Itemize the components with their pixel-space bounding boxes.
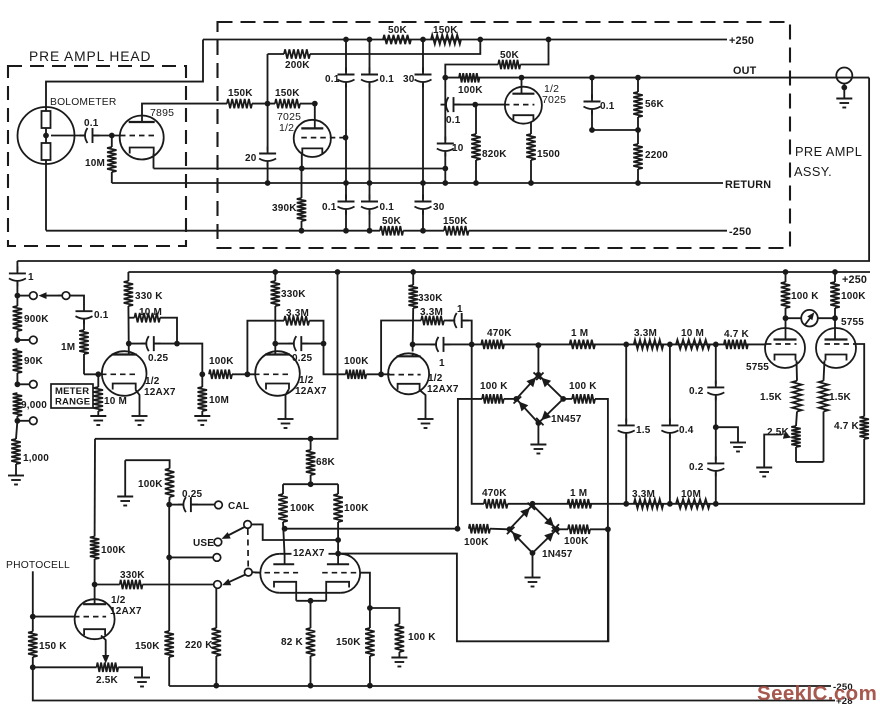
wire 5755 right grid xyxy=(856,344,865,417)
svg-text:50K: 50K xyxy=(382,216,402,227)
svg-text:100K: 100K xyxy=(564,536,589,547)
svg-text:5755: 5755 xyxy=(841,317,864,328)
wire cathode join xyxy=(796,461,824,463)
wire -250 rail bottom xyxy=(169,682,853,693)
capacitor 0.1 (7025b coupling) xyxy=(441,97,461,126)
resistor 3.3M + capacitor 1 (stage3 feedback) xyxy=(381,304,472,374)
resistor 100K (bridge1 right) xyxy=(563,381,611,641)
svg-text:1N457: 1N457 xyxy=(551,414,582,425)
svg-text:900K: 900K xyxy=(24,314,49,325)
tube V3 7025 second half xyxy=(504,75,566,124)
wire filter line C lower xyxy=(420,211,426,234)
wire photocell cathode to wiper xyxy=(101,636,109,664)
svg-text:1 M: 1 M xyxy=(570,488,587,499)
svg-text:150K: 150K xyxy=(443,216,468,227)
svg-text:0.25: 0.25 xyxy=(182,489,203,500)
resistor 82K (twin cathode) xyxy=(281,601,315,686)
resistor 1M (upper) xyxy=(570,328,630,349)
resistor 150K (second) xyxy=(275,88,300,108)
svg-text:10M: 10M xyxy=(85,158,105,169)
svg-text:10 M: 10 M xyxy=(104,396,127,407)
resistor 100K (stage2-3 coupling) xyxy=(344,356,390,379)
svg-text:1/2: 1/2 xyxy=(279,122,294,134)
wire B+ rail lower xyxy=(128,269,870,275)
node 68K top xyxy=(308,436,314,442)
svg-text:METER: METER xyxy=(55,386,89,397)
switch blade upper xyxy=(222,521,252,539)
tube V10 5755 right xyxy=(816,317,864,368)
svg-text:150K: 150K xyxy=(135,641,160,652)
capacitor 0.25 (stage2) xyxy=(272,336,326,364)
resistor 2200 xyxy=(633,130,668,186)
resistor 150K (cal leg) xyxy=(135,631,174,686)
wire 7895 plate to 150K row xyxy=(142,104,227,116)
wire right-plate to switch xyxy=(252,524,338,540)
svg-text:330K: 330K xyxy=(418,293,443,304)
capacitor 0.1 (output) xyxy=(584,75,615,133)
node 7025a grid-line junction xyxy=(343,135,349,141)
wire twin right grid xyxy=(361,573,373,611)
svg-text:0.1: 0.1 xyxy=(446,115,461,126)
wire photocell drop xyxy=(30,571,36,619)
capacitor 20 (cathode bypass) xyxy=(245,104,276,183)
wire bolometer bottom to -250 rail xyxy=(45,160,47,231)
wire bridge1 ground stem xyxy=(537,423,539,445)
ground (stage2 cathode) xyxy=(278,419,294,428)
svg-text:330K: 330K xyxy=(120,570,145,581)
capacitor 1 (stage3 plate coupling) xyxy=(410,337,475,369)
capacitor 0.1 (meter cal input) xyxy=(76,304,109,324)
svg-text:-250: -250 xyxy=(729,226,751,238)
resistor 150K (+250 rail) xyxy=(431,25,551,44)
capacitor 0.1 (A bottom) xyxy=(322,195,355,215)
capacitor 1.5 xyxy=(618,344,651,504)
resistor 1M (lower) xyxy=(568,488,592,509)
resistor 330K (stage3 plate) xyxy=(409,272,444,352)
svg-text:20: 20 xyxy=(245,153,257,164)
bolometer B1 xyxy=(18,97,117,164)
svg-text:ASSY.: ASSY. xyxy=(794,164,832,179)
ground (2.5K) xyxy=(134,678,150,687)
svg-text:820K: 820K xyxy=(482,149,507,160)
tube V5 stage2 1/2 12AX7 xyxy=(254,351,327,397)
resistor 100K (bridge2 right) xyxy=(557,525,608,547)
wire cap to node xyxy=(94,135,121,137)
wire RETURN row xyxy=(112,179,771,191)
svg-text:0.1: 0.1 xyxy=(84,118,99,129)
svg-text:0.4: 0.4 xyxy=(679,425,694,436)
svg-text:100 K: 100 K xyxy=(408,632,436,643)
wire filter line B lower xyxy=(367,211,373,234)
node twin left plate xyxy=(282,526,288,532)
enclosure PRE AMPL ASSY dashed box xyxy=(218,22,863,248)
wire stage3 cathode xyxy=(419,390,426,420)
resistor 100K (7025b grid) xyxy=(458,73,483,96)
svg-text:150K: 150K xyxy=(275,88,300,99)
svg-text:1/2: 1/2 xyxy=(299,375,314,386)
resistor 820K xyxy=(471,105,507,186)
node 0.2 mid xyxy=(713,424,738,442)
label METER RANGE xyxy=(51,384,93,408)
capacitor 30 (C bottom) xyxy=(415,195,445,215)
resistor 1M xyxy=(61,320,89,375)
svg-text:3.3M: 3.3M xyxy=(286,308,309,319)
diode bridge 1N457 (upper) xyxy=(513,372,581,426)
ground (bridge1) xyxy=(530,445,546,454)
svg-text:1: 1 xyxy=(457,304,463,315)
svg-text:50K: 50K xyxy=(500,50,520,61)
svg-text:470K: 470K xyxy=(482,488,507,499)
svg-text:12AX7: 12AX7 xyxy=(144,387,176,398)
ground (divider) xyxy=(8,476,24,485)
wire stage3 out drop xyxy=(472,344,484,503)
svg-text:0.2: 0.2 xyxy=(689,386,704,397)
wire filter line B upper xyxy=(367,37,373,72)
tap 90K/9000 xyxy=(15,381,38,389)
switch linkage dashed xyxy=(247,529,249,568)
svg-text:1/2: 1/2 xyxy=(111,595,126,606)
svg-text:150K: 150K xyxy=(433,25,458,36)
svg-text:56K: 56K xyxy=(645,99,665,110)
svg-text:10M: 10M xyxy=(681,489,701,500)
ground (cal divider) xyxy=(117,460,133,505)
ground (stage3 cathode) xyxy=(418,419,434,428)
wire blade lower to grid xyxy=(252,571,260,574)
svg-text:100K: 100K xyxy=(344,503,369,514)
wire filter line A lower xyxy=(343,211,349,234)
resistor 50K (+250 rail) xyxy=(383,25,411,44)
meter M1 xyxy=(783,310,838,327)
svg-text:1.5K: 1.5K xyxy=(760,392,783,403)
svg-text:0.1: 0.1 xyxy=(380,74,395,85)
svg-text:12AX7: 12AX7 xyxy=(427,384,459,395)
wire stage1 out xyxy=(177,344,205,378)
wire bolometer top to +250 rail xyxy=(46,40,203,112)
wire filter line D lower xyxy=(442,153,448,186)
resistor 200K xyxy=(284,49,310,71)
resistor 1.5K (5755 right cathode) xyxy=(819,361,852,462)
ground (0.2 mid) xyxy=(730,443,746,452)
svg-text:0.2: 0.2 xyxy=(689,462,704,473)
svg-text:BOLOMETER: BOLOMETER xyxy=(50,97,116,108)
svg-text:4.7 K: 4.7 K xyxy=(724,329,749,340)
svg-text:+250: +250 xyxy=(842,274,867,286)
svg-text:USE: USE xyxy=(193,538,214,549)
svg-text:100K: 100K xyxy=(841,291,866,302)
ground (stage2 grid) xyxy=(194,416,210,425)
capacitor 0.2 (upper) xyxy=(689,344,724,427)
tube V7 12AX7 twin xyxy=(255,548,361,601)
resistor 100K (bridge1 left) xyxy=(458,381,516,526)
svg-text:50K: 50K xyxy=(388,25,408,36)
node divider top xyxy=(15,293,21,299)
node cal junction xyxy=(166,502,172,508)
resistor 9000 xyxy=(13,393,48,421)
potentiometer 2.5K xyxy=(33,663,142,686)
wire 0.1 to grid xyxy=(455,102,506,108)
resistor 1.5K (5755 left cathode) xyxy=(760,361,802,427)
wire bridge2 top feed xyxy=(532,504,534,505)
wire +250 rail xyxy=(203,35,754,47)
resistor 470K (upper) xyxy=(481,328,512,349)
resistor 150K (right grid) xyxy=(336,608,375,686)
svg-text:RETURN: RETURN xyxy=(725,179,771,191)
wire 200K branch xyxy=(268,54,285,104)
wire upper diff row xyxy=(472,343,766,345)
capacitor 0.25 (CAL) xyxy=(169,489,214,512)
capacitor 0.1 (A top) xyxy=(325,68,355,88)
wire feedback from OUT xyxy=(17,78,869,261)
svg-text:100K: 100K xyxy=(344,356,369,367)
switch meter-range wiper xyxy=(17,292,84,305)
svg-text:100K: 100K xyxy=(138,479,163,490)
svg-text:330K: 330K xyxy=(281,289,306,300)
wire filter line B middle xyxy=(367,84,373,200)
wire 0.1-56K bottoms xyxy=(592,129,638,131)
terminal output jack xyxy=(836,68,852,99)
svg-text:PHOTOCELL: PHOTOCELL xyxy=(6,560,70,571)
resistor 100K (photocell plate) xyxy=(90,439,126,600)
resistor 3.3M (stage2 feedback) xyxy=(247,308,323,374)
wire -250 right xyxy=(469,226,752,238)
resistor 50K (-250 rail) xyxy=(380,216,403,235)
wire twin-plate feed xyxy=(283,483,338,485)
node twin cathode xyxy=(308,598,314,604)
tube V6 stage3 1/2 12AX7 xyxy=(388,353,459,395)
wire -250 rail left xyxy=(46,230,380,232)
svg-text:12AX7: 12AX7 xyxy=(110,606,142,617)
svg-text:PRE AMPL HEAD: PRE AMPL HEAD xyxy=(29,49,151,64)
wire 200K to +250 rail xyxy=(310,40,480,55)
svg-text:4.7 K: 4.7 K xyxy=(834,421,859,432)
resistor 330K (photocell feedback) xyxy=(95,570,214,589)
resistor 100K (bridge2 left) xyxy=(464,524,510,548)
ground (stage1 cathode) xyxy=(132,416,148,425)
wire cal drop xyxy=(168,505,170,631)
svg-text:0.1: 0.1 xyxy=(325,74,340,85)
resistor 10M (lower) xyxy=(676,489,710,509)
svg-text:82 K: 82 K xyxy=(281,637,304,648)
svg-text:68K: 68K xyxy=(316,457,336,468)
resistor 56K xyxy=(633,75,664,133)
resistor 100K (right grid to gnd) xyxy=(370,608,436,658)
wire -250 mid xyxy=(403,230,444,232)
svg-text:3.3M: 3.3M xyxy=(634,328,657,339)
resistor 90K xyxy=(13,349,44,384)
resistor 4.7K (to 5755 grid) xyxy=(724,329,750,349)
resistor 100K (cal divider) xyxy=(125,460,174,504)
wire cathode row xyxy=(154,168,446,170)
resistor 1000 xyxy=(11,421,49,476)
svg-text:RANGE: RANGE xyxy=(55,397,90,408)
svg-text:10M: 10M xyxy=(209,395,229,406)
tube V1 7895 xyxy=(120,107,174,160)
node twin right plate row2 xyxy=(335,551,341,557)
node plate supply xyxy=(308,481,314,487)
svg-text:2200: 2200 xyxy=(645,150,668,161)
svg-text:1 M: 1 M xyxy=(571,328,588,339)
svg-text:10 M: 10 M xyxy=(139,307,162,318)
resistor 150K (photocell load) xyxy=(28,617,67,668)
resistor 100K (5755 left plate) xyxy=(781,272,819,318)
wire bolometer output xyxy=(51,135,85,137)
wire left-plate row xyxy=(285,526,461,532)
resistor 900K xyxy=(13,296,50,340)
svg-text:12AX7: 12AX7 xyxy=(293,548,325,559)
label +250 lower xyxy=(842,274,867,286)
svg-text:390K: 390K xyxy=(272,203,297,214)
resistor 10M (7895 grid) xyxy=(85,136,117,184)
svg-text:0.1: 0.1 xyxy=(322,202,337,213)
wire stage1 grid row xyxy=(84,371,103,377)
ground (output jack) xyxy=(836,99,852,108)
enclosure PRE AMPL HEAD dashed box xyxy=(8,49,186,246)
svg-text:150K: 150K xyxy=(336,637,361,648)
svg-text:OUT: OUT xyxy=(733,65,757,77)
capacitor 0.4 xyxy=(661,344,693,504)
resistor 150K (-250 rail) xyxy=(443,216,469,235)
svg-text:220 K: 220 K xyxy=(185,640,213,651)
resistor 150K (first) xyxy=(227,88,253,108)
svg-text:5755: 5755 xyxy=(746,362,769,373)
svg-text:1: 1 xyxy=(28,272,34,283)
svg-text:150 K: 150 K xyxy=(39,641,67,652)
svg-text:0.25: 0.25 xyxy=(148,353,169,364)
svg-text:100 K: 100 K xyxy=(480,381,508,392)
svg-text:100K: 100K xyxy=(290,503,315,514)
svg-text:470K: 470K xyxy=(487,328,512,339)
switch blade lower xyxy=(222,568,252,585)
resistor 330K (stage1 plate) xyxy=(124,272,164,352)
ground (bridge2) xyxy=(525,578,541,587)
resistor 3.3M (lower) xyxy=(632,489,663,509)
capacitor 1 (input divider) xyxy=(9,261,34,296)
resistor 220K xyxy=(185,581,221,689)
svg-text:1500: 1500 xyxy=(537,149,560,160)
resistor 10M (upper) xyxy=(676,328,719,349)
resistor 10M (stage1 grid) xyxy=(94,374,127,416)
svg-text:3.3M: 3.3M xyxy=(632,489,655,500)
potentiometer 2.5K (balance) xyxy=(767,426,801,462)
capacitor 0.2 (lower) xyxy=(689,427,724,504)
resistor 4.7K (right grid) xyxy=(834,417,869,505)
svg-text:1/2: 1/2 xyxy=(145,376,160,387)
node photocell plate xyxy=(92,582,98,588)
svg-text:1.5: 1.5 xyxy=(636,425,651,436)
svg-text:+250: +250 xyxy=(729,35,754,47)
wire stage2 cathode xyxy=(286,390,289,420)
node photocell cathode rail xyxy=(30,664,36,670)
watermark xyxy=(757,682,877,705)
wire to 7025 grid xyxy=(300,101,318,107)
svg-text:30: 30 xyxy=(433,202,445,213)
svg-text:1/2: 1/2 xyxy=(428,373,443,384)
resistor 100K (5755 right plate) xyxy=(830,272,866,318)
node twin right plate row1 xyxy=(335,537,341,543)
resistor 330K (stage2 plate) xyxy=(271,272,307,352)
wire lower diff row xyxy=(508,501,865,507)
svg-text:100K: 100K xyxy=(464,537,489,548)
node use wire xyxy=(166,555,213,561)
resistor 100K (twin right plate) xyxy=(333,484,369,556)
resistor 50K (decoupling) xyxy=(445,40,548,78)
wire filter line C middle xyxy=(420,84,426,200)
terminal CAL contact xyxy=(215,501,249,512)
wire 7025a cathode xyxy=(299,155,305,172)
svg-text:90K: 90K xyxy=(24,356,44,367)
svg-text:100 K: 100 K xyxy=(791,291,819,302)
wire filter line A upper xyxy=(343,37,349,72)
wire balance wiper xyxy=(764,432,791,467)
svg-text:7025: 7025 xyxy=(542,94,566,106)
svg-text:1: 1 xyxy=(439,358,445,369)
tube V9 5755 left xyxy=(746,318,805,373)
wire filter line A middle xyxy=(343,84,349,200)
svg-text:2.5K: 2.5K xyxy=(96,675,119,686)
wire bridge2 ground stem xyxy=(532,553,534,578)
svg-text:330 K: 330 K xyxy=(135,291,163,302)
ground (100K right grid) xyxy=(391,658,407,667)
svg-text:200K: 200K xyxy=(285,60,310,71)
resistor 390K xyxy=(272,168,306,233)
wire bottom +28 rail xyxy=(33,667,853,707)
svg-text:10 M: 10 M xyxy=(681,328,704,339)
svg-text:0.1: 0.1 xyxy=(600,101,615,112)
svg-text:30: 30 xyxy=(403,74,415,85)
svg-text:1,000: 1,000 xyxy=(23,453,49,464)
tube V2 7025 first half xyxy=(277,104,346,157)
resistor 10M (stage2 grid) xyxy=(198,374,229,416)
svg-text:PRE AMPL: PRE AMPL xyxy=(795,144,862,159)
capacitor 0.1 (B bottom) xyxy=(361,195,394,215)
resistor 470K (lower) xyxy=(482,488,508,509)
wire right-plate loop xyxy=(338,529,608,641)
terminal USE contact xyxy=(193,538,222,549)
svg-text:1.5K: 1.5K xyxy=(829,392,852,403)
svg-text:SeekIC.com: SeekIC.com xyxy=(757,682,877,705)
svg-text:100K: 100K xyxy=(458,85,483,96)
wire stage2 out xyxy=(324,344,346,375)
tap 9000/1000 xyxy=(15,417,38,425)
tap 900K/90K xyxy=(15,336,38,344)
capacitor 0.1 (B top) xyxy=(361,68,394,88)
capacitor 30 (C top) xyxy=(403,68,432,88)
tube V8 1/2 12AX7 (photocell) xyxy=(74,595,142,639)
svg-text:10: 10 xyxy=(452,143,464,154)
svg-text:150K: 150K xyxy=(228,88,253,99)
svg-text:1N457: 1N457 xyxy=(542,549,573,560)
svg-text:100K: 100K xyxy=(101,545,126,556)
svg-text:0.1: 0.1 xyxy=(380,202,395,213)
svg-text:CAL: CAL xyxy=(228,501,249,512)
ground (balance wiper) xyxy=(756,468,772,477)
diode bridge 1N457 (lower) xyxy=(507,503,573,560)
node grid 7895 xyxy=(109,133,115,139)
svg-text:7895: 7895 xyxy=(150,107,174,119)
svg-text:9,000: 9,000 xyxy=(21,400,47,411)
capacitor 0.25 (stage1) xyxy=(126,336,180,364)
wire OUT row xyxy=(442,65,869,81)
svg-text:100K: 100K xyxy=(209,356,234,367)
resistor 10M (stage1 feedback) xyxy=(129,307,177,344)
wire 7895 cathode xyxy=(153,154,155,169)
wire bridge1 top feed xyxy=(536,342,542,374)
wire stage1 cathode xyxy=(135,390,139,417)
svg-text:100 K: 100 K xyxy=(569,381,597,392)
terminal spare contact xyxy=(213,554,221,562)
svg-text:0.1: 0.1 xyxy=(94,310,109,321)
svg-text:3.3M: 3.3M xyxy=(420,307,443,318)
